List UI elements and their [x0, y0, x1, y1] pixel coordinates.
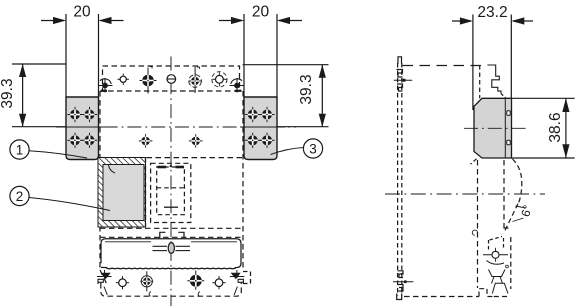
bracket below handle left — [160, 232, 166, 238]
side view: block bottom left step dashes — [471, 159, 477, 164]
hook below large phillips — [198, 292, 200, 297]
leader line 2 — [29, 198, 110, 211]
front view mid screw left — [139, 134, 153, 148]
handle recess inner dashed rect — [157, 167, 185, 215]
front view: body dashed line mid — [147, 157, 244, 159]
terminal block 3 screws — [245, 107, 275, 148]
svg-text:39.3: 39.3 — [298, 74, 315, 104]
front view mid screw right — [189, 134, 203, 148]
dimension 39.3 right: dimension line with arrows — [319, 65, 326, 127]
front view: vertical centre line — [170, 57, 172, 306]
dimension 20 right: dimension line with arrows — [219, 17, 302, 24]
svg-text:39.3: 39.3 — [0, 78, 16, 108]
strip screw F (phillips with dashed circle) — [212, 72, 227, 87]
strip screw A (left edge) — [99, 78, 113, 93]
handle window thick top dashes — [158, 166, 185, 169]
front view: top accessory strip dashed outline — [103, 66, 240, 91]
front view: horizontal centre line — [56, 126, 296, 128]
strip screw D (slotted circle, centre) — [167, 75, 177, 84]
side view: rear bracket lower2 — [398, 285, 404, 292]
side view: lower body dashed edge right lower — [510, 237, 512, 289]
dimension 39.3 left: dimension line with arrows — [19, 64, 26, 127]
side view: bottom trapezoid foot — [492, 283, 508, 293]
dimension 39.3 left: extension lines — [12, 64, 66, 127]
handle recess outer dashed rect — [151, 163, 191, 222]
bottom screw phillips large — [187, 271, 204, 290]
side view: block centre line — [464, 127, 527, 129]
base moulding rounded rect — [101, 239, 241, 269]
side view: dimension 23.2 extension lines — [473, 15, 511, 111]
base inner top line — [105, 241, 237, 243]
bracket below handle right — [178, 232, 184, 238]
strip screw G (right edge) — [230, 78, 244, 93]
side view: front stepped profile dashed vertical — [479, 65, 481, 98]
svg-text:38.6: 38.6 — [547, 112, 564, 142]
side view: terminal block hole upper — [507, 111, 510, 116]
side view: terminal block hole lower — [507, 140, 510, 145]
leader line 3 — [271, 148, 304, 155]
cable clamp barrel — [168, 243, 174, 254]
hook below small phillips — [149, 292, 151, 297]
side view: dimension 38.6 extension lines — [512, 98, 575, 158]
terminal block 1 screws — [67, 107, 97, 148]
side view: bottom step — [479, 289, 494, 297]
bottom screw edge left — [97, 270, 112, 295]
dimension 39.3 right: extension lines — [243, 65, 329, 127]
svg-text:23.2: 23.2 — [477, 4, 507, 21]
handle grip line — [164, 206, 178, 208]
dimension 20 left: dimension line with arrows — [41, 17, 124, 24]
side view: rear bottom hook — [397, 294, 402, 300]
side view: clamp funnel — [489, 270, 506, 277]
side view: bottom dashed under foot — [494, 296, 509, 298]
svg-text:20: 20 — [73, 4, 91, 21]
cable clamp double lines left — [153, 246, 168, 250]
terminal block 1 (left, gray) — [66, 97, 99, 160]
side view: top rear hook — [398, 57, 402, 64]
side view: lower body inward diagonal — [504, 204, 518, 233]
svg-text:2: 2 — [16, 189, 24, 204]
callout circle 1 — [10, 140, 29, 159]
bottom screw phillips small — [140, 271, 153, 291]
bottom dashed outline of base — [100, 270, 241, 296]
side view: lower body bulge curve — [513, 159, 522, 204]
side view: top dashed outline — [403, 65, 488, 67]
terminal block 3 (right, gray) — [244, 97, 277, 160]
side view: clamp arc — [487, 261, 505, 265]
box terminal shroud (hatched border, gray fill) — [98, 158, 146, 228]
side view: lower body dashed edge left — [477, 160, 479, 288]
side tab dashed right — [243, 272, 251, 284]
side view: lower body dashed edge mid — [503, 160, 505, 231]
side view: bottom dashed outline — [404, 296, 479, 298]
svg-text:20: 20 — [252, 4, 270, 21]
side view: step to block dashes — [501, 94, 506, 98]
side view: front stepped profile — [487, 65, 501, 94]
centre line across terminal blocks — [58, 126, 285, 128]
side view: small hook c — [472, 230, 477, 235]
dimension 20 right: extension lines — [244, 14, 277, 97]
bottom screw open right — [212, 276, 225, 289]
side view: clamp screw — [483, 248, 508, 262]
front view: body dashed line above base — [100, 236, 243, 238]
side view: rear bracket lower — [398, 271, 404, 278]
side view: rear bracket upper — [397, 70, 403, 78]
bottom screw edge right — [230, 270, 245, 295]
strip screw E (black phillips) — [189, 67, 202, 93]
side view: dimension 23.2 line with arrows — [452, 17, 533, 24]
side view: rear latch pointer lower — [393, 280, 413, 283]
side view: rear bracket upper2 — [397, 84, 403, 91]
side view: 6 degree draft angle lines — [513, 206, 527, 222]
bottom screw open left — [116, 276, 129, 289]
strip screw C (large black phillips) — [140, 67, 157, 94]
side view: rear mounting plane dashed double line — [398, 63, 402, 296]
cable clamp double lines right — [176, 246, 191, 250]
callout circle 3 — [303, 139, 322, 158]
side view: profile notch dash — [505, 227, 512, 229]
front view: body dashed outline right edge — [242, 91, 244, 270]
side view: rear latch pointer upper — [394, 79, 413, 82]
side view: clamp degree mark — [506, 265, 509, 268]
side view: clamp funnel stem — [492, 277, 503, 284]
handle mid dashed line — [157, 187, 185, 189]
side view: dimension 38.6 line with arrows — [562, 98, 569, 158]
dimension 20 left: extension lines — [66, 14, 99, 97]
side view: lower centre line — [385, 193, 545, 195]
handle pivot dot — [170, 165, 172, 167]
leader line 1 — [29, 151, 87, 158]
svg-text:1: 1 — [16, 142, 24, 157]
side view: terminal block (gray) — [474, 98, 512, 158]
front view: body dashed outline left edge — [99, 91, 101, 270]
side view: clamp screw dashed guides — [489, 237, 504, 253]
front view: body dashed line lower — [100, 227, 243, 229]
strip screw B (open circle with cross) — [118, 74, 129, 85]
callout circle 2 — [10, 186, 29, 205]
svg-text:3: 3 — [309, 141, 317, 156]
